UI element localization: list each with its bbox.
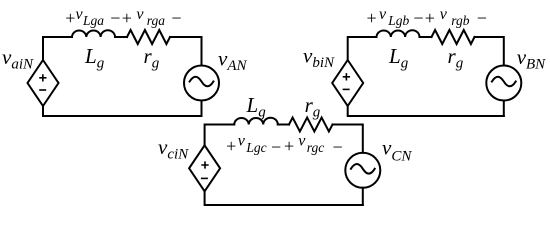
label +vLga- voltage polarity (phase a inductor) [65, 6, 120, 28]
AC source vCN circle [345, 153, 380, 188]
svg-text:Lg: Lg [84, 44, 105, 71]
svg-text:rg: rg [305, 93, 321, 121]
resistor rg (phase a) [127, 30, 170, 44]
plus sign inside vciN [202, 162, 208, 168]
svg-text:vBN: vBN [517, 45, 546, 73]
minus sign inside vciN [202, 177, 207, 179]
minus sign inside vaiN [40, 89, 45, 91]
inductor Lg (phase b) [377, 30, 420, 37]
dependent source vciN diamond [189, 145, 220, 191]
inductor Lg (phase c) [234, 118, 278, 125]
svg-text:−: − [477, 8, 487, 28]
wire: circuit A bottom rail [43, 106, 202, 116]
dependent source vaiN diamond [28, 60, 59, 106]
wire: circuit A between inductor and resistor [115, 36, 127, 38]
wire: circuit B top rail right segment + right vertical down to source vBN [475, 37, 504, 66]
svg-text:Lgb: Lgb [387, 13, 409, 28]
svg-text:vbiN: vbiN [303, 44, 335, 72]
dependent source vbiN diamond [332, 60, 363, 106]
wire: circuit C top rail right segment + right vertical down to source vCN [333, 125, 363, 153]
svg-text:−: − [110, 8, 120, 28]
svg-text:vAN: vAN [218, 47, 247, 75]
AC source vBN circle [486, 66, 521, 101]
label +vLgc- voltage polarity (phase c inductor) [226, 133, 281, 157]
svg-text:rgb: rgb [451, 13, 470, 28]
AC source vBN sine [492, 77, 516, 87]
wire: circuit C left vertical + top rail left segment [205, 125, 235, 146]
svg-text:vaiN: vaiN [2, 45, 34, 73]
svg-text:−: − [271, 137, 281, 157]
svg-text:v: v [440, 6, 448, 23]
wire: circuit A from vAN bottom to bottom rail [201, 101, 203, 117]
label +vrgc- voltage polarity (phase c resistor) [284, 133, 343, 157]
svg-text:+: + [122, 8, 132, 28]
svg-text:Lg: Lg [246, 93, 267, 121]
svg-text:+: + [284, 136, 294, 156]
resistor rg (phase c) [289, 118, 333, 132]
svg-text:v: v [136, 6, 144, 23]
svg-text:+: + [367, 8, 377, 28]
wire: circuit A left vertical + top rail left segment [43, 37, 72, 60]
svg-text:v: v [298, 133, 306, 150]
wire: circuit A top rail right segment + right vertical down to source vAN [170, 37, 202, 66]
svg-text:+: + [65, 8, 75, 28]
AC source vCN sine [351, 164, 375, 174]
svg-text:Lg: Lg [388, 44, 409, 71]
wire: circuit C between inductor and resistor [278, 124, 289, 126]
svg-text:v: v [379, 6, 387, 23]
AC source vAN sine [190, 77, 214, 87]
label +vrgb- voltage polarity (phase b resistor) [425, 6, 487, 28]
wire: circuit B from vBN bottom to bottom rail [503, 101, 505, 117]
wire: circuit B between inductor and resistor [420, 36, 432, 38]
inductor Lg (phase a) [72, 30, 115, 37]
wire: circuit B bottom rail [348, 106, 504, 116]
svg-text:+: + [226, 136, 236, 156]
wire: circuit C bottom rail [205, 191, 363, 205]
label +vLgb- voltage polarity (phase b inductor) [367, 6, 424, 28]
minus sign inside vbiN [343, 88, 348, 90]
svg-text:vciN: vciN [158, 135, 189, 163]
plus sign inside vaiN [40, 75, 46, 81]
wire: circuit B left vertical + top rail left segment [348, 37, 377, 60]
AC source vAN circle [184, 66, 219, 101]
svg-text:rga: rga [147, 13, 166, 28]
svg-text:Lga: Lga [82, 13, 104, 28]
label +vrga- voltage polarity (phase a resistor) [122, 6, 182, 28]
svg-text:Lgc: Lgc [245, 140, 266, 155]
svg-text:−: − [413, 8, 423, 28]
svg-text:vCN: vCN [382, 136, 412, 165]
svg-text:rg: rg [144, 44, 160, 71]
svg-text:rgc: rgc [307, 140, 325, 155]
svg-text:rg: rg [448, 44, 464, 71]
plus sign inside vbiN [344, 74, 350, 80]
svg-text:+: + [425, 8, 435, 28]
resistor rg (phase b) [432, 30, 475, 44]
svg-text:v: v [238, 133, 246, 150]
wire: circuit C from vCN bottom to bottom rail [362, 188, 364, 205]
svg-text:−: − [333, 137, 343, 157]
svg-text:−: − [171, 8, 181, 28]
